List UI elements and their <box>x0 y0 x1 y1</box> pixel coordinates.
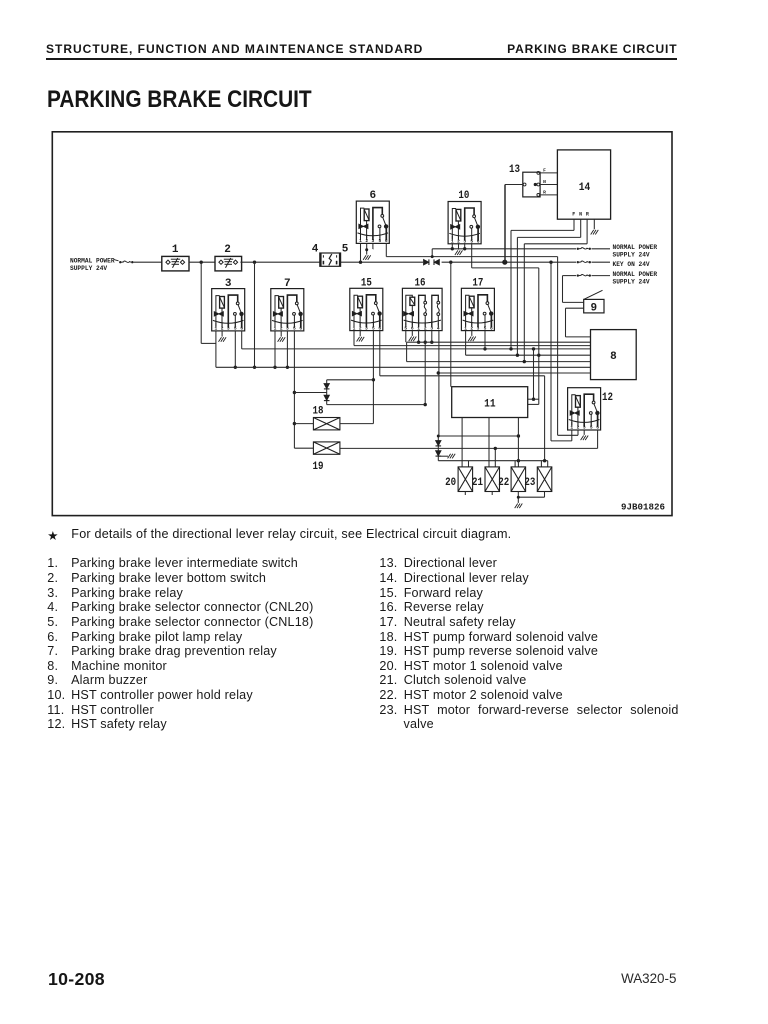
svg-text:9: 9 <box>590 302 597 314</box>
box 8 (machine monitor) <box>591 330 637 380</box>
wire to ground <box>438 455 448 457</box>
wire relay7 pin1 down <box>274 331 276 367</box>
wire diode junction up <box>431 249 433 257</box>
svg-text:15: 15 <box>361 278 372 290</box>
wire 13-N to 14 <box>540 184 558 186</box>
svg-text:R: R <box>586 212 589 218</box>
wire relay16 pin4 down <box>438 331 440 437</box>
junction <box>494 447 497 450</box>
svg-text:F: F <box>543 167 546 173</box>
svg-text:5: 5 <box>404 325 407 331</box>
wire relay10 pin2 <box>458 243 460 250</box>
ground relay 3 <box>219 337 227 342</box>
wire relay15 pin1 down <box>353 331 355 346</box>
switch S2 internals <box>219 258 238 268</box>
wire 14-F down <box>573 219 575 230</box>
svg-text:10: 10 <box>458 190 469 202</box>
wire relay6 pin2 <box>366 243 368 254</box>
junction in connector 13 <box>534 183 537 186</box>
junction <box>253 366 256 369</box>
junction <box>543 459 546 462</box>
svg-text:1: 1 <box>417 325 420 331</box>
junction <box>417 341 420 344</box>
junction <box>451 247 454 250</box>
diagram frame <box>52 132 672 516</box>
wire rail <box>189 261 215 263</box>
bus into box8 g <box>216 366 591 368</box>
wire <box>592 248 611 250</box>
svg-text:18: 18 <box>313 406 324 418</box>
junction F <box>509 347 512 350</box>
junction <box>537 354 540 357</box>
svg-text:NORMAL POWER: NORMAL POWER <box>613 271 658 278</box>
junction <box>365 248 368 251</box>
svg-text:R: R <box>543 189 546 195</box>
wire F vertical <box>510 230 512 349</box>
junction <box>449 261 452 264</box>
svg-text:6: 6 <box>378 325 381 331</box>
ground relay 12 <box>581 436 589 441</box>
diode D2 on rail <box>434 259 439 265</box>
svg-text:2: 2 <box>365 238 368 244</box>
wire 14-R down <box>586 219 588 244</box>
wire box11 to valve22 right pin <box>517 418 519 467</box>
relay 17 (neutral safety relay) <box>461 288 494 330</box>
svg-text:4: 4 <box>437 325 440 331</box>
wire valve18 left <box>294 423 313 425</box>
wire relay3 pin2 <box>221 331 223 337</box>
valve 23 (HST motor fwd-rev selector solenoid) <box>537 467 552 492</box>
bus into box8 e <box>466 354 591 356</box>
wire relay7 pin2 <box>280 331 282 337</box>
footer page number <box>48 969 105 990</box>
wire rail to box11 <box>450 262 452 387</box>
junction <box>517 459 520 462</box>
wire valve22 bottom <box>517 492 519 503</box>
svg-text:2: 2 <box>280 326 283 332</box>
wire 13 down to rail <box>504 185 506 263</box>
wire valve23 to valve22 <box>518 496 544 498</box>
header left <box>46 42 423 56</box>
junction <box>483 347 486 350</box>
wire buzzer bottom h <box>566 307 584 309</box>
box11 stub a <box>528 398 539 400</box>
junction heavy <box>502 260 507 265</box>
connector 4/5 internals <box>321 253 340 266</box>
header right <box>507 42 677 56</box>
valve 19 (HST pump reverse solenoid) <box>313 442 340 454</box>
svg-text:1: 1 <box>464 325 467 331</box>
svg-text:NORMAL POWER: NORMAL POWER <box>613 244 658 251</box>
junction <box>424 403 427 406</box>
svg-text:3: 3 <box>225 278 232 290</box>
legend list <box>47 557 387 570</box>
svg-text:13: 13 <box>509 164 520 176</box>
junction <box>532 347 535 350</box>
ground relay 6 <box>363 255 371 260</box>
wire relay6 pin3 stub <box>372 243 374 249</box>
supply switch right 1 <box>577 248 591 250</box>
svg-text:3: 3 <box>365 325 368 331</box>
valve 21 (clutch solenoid) <box>485 467 500 492</box>
svg-text:1: 1 <box>353 325 356 331</box>
svg-text:2: 2 <box>221 326 224 332</box>
wire <box>372 248 375 250</box>
wire R vertical <box>523 244 525 362</box>
wire down to box11 stub2 <box>538 268 540 405</box>
wire relay15 pin2 <box>359 331 361 337</box>
svg-text:3: 3 <box>227 326 230 332</box>
wire relay10 pin3 <box>464 243 466 249</box>
junction <box>200 261 203 264</box>
junction N <box>516 354 519 357</box>
valve22 left pin <box>514 461 516 467</box>
wire relay12 pin3 <box>583 430 585 435</box>
junction <box>549 261 552 264</box>
svg-text:6: 6 <box>411 325 414 331</box>
svg-text:5: 5 <box>372 325 375 331</box>
junction <box>424 341 427 344</box>
wire 14-R left <box>524 243 587 245</box>
wire relay3 pin5 down <box>234 331 236 367</box>
junction <box>293 391 296 394</box>
wire <box>472 267 539 269</box>
valve20 right pin <box>468 461 470 467</box>
svg-text:6: 6 <box>240 326 243 332</box>
key-on switch <box>577 261 591 263</box>
svg-text:1: 1 <box>172 244 179 256</box>
svg-text:7: 7 <box>284 278 291 290</box>
wire relay10 pin1 <box>451 243 453 249</box>
relay 7 (parking brake drag prevention relay) <box>271 289 304 331</box>
valve 18 (HST pump forward solenoid) <box>313 418 340 430</box>
wire relay6 pin6 right <box>386 256 557 258</box>
wire bus left end <box>406 342 408 361</box>
valve23 right pin <box>547 461 549 467</box>
diode D5 <box>436 441 442 446</box>
svg-text:12: 12 <box>602 392 613 404</box>
supply switch right 2 <box>577 274 591 276</box>
svg-text:3: 3 <box>430 325 433 331</box>
svg-text:5: 5 <box>234 326 237 332</box>
svg-text:2: 2 <box>424 325 427 331</box>
svg-text:3: 3 <box>372 238 375 244</box>
wire relay15 pin5 down <box>372 331 374 424</box>
stub valve20 bottom <box>464 492 466 496</box>
svg-text:6: 6 <box>385 238 388 244</box>
wire 14-F left <box>511 229 574 231</box>
junction R <box>523 360 526 363</box>
wire valve19 right long <box>340 447 598 449</box>
junction <box>463 247 466 250</box>
wire diode bottom <box>327 404 426 406</box>
svg-text:22: 22 <box>498 477 509 489</box>
bus into box8 c <box>354 345 591 347</box>
diode chain 2 vertical <box>437 436 439 461</box>
junction <box>234 366 237 369</box>
svg-text:20: 20 <box>445 477 456 489</box>
switch S2 (parking brake lever bottom switch) <box>215 256 242 271</box>
wire rail <box>240 261 320 263</box>
junction <box>517 434 520 437</box>
wire 14 ground <box>593 219 595 229</box>
svg-text:1: 1 <box>274 326 277 332</box>
wire relay10 pin5 <box>471 243 473 268</box>
page title <box>47 86 312 114</box>
wire <box>551 440 572 442</box>
footer model <box>621 971 676 986</box>
diode D6 <box>436 451 442 456</box>
svg-text:N: N <box>543 179 546 185</box>
box11 stub b <box>528 403 539 405</box>
wire N vertical <box>516 237 518 355</box>
wire rail key-on <box>341 261 576 263</box>
wire relay6 pin1 to rail <box>360 243 362 262</box>
svg-text:KEY ON 24V: KEY ON 24V <box>613 261 650 268</box>
svg-text:5: 5 <box>590 425 593 431</box>
wire valve23 bottom <box>544 492 546 498</box>
wire diode top <box>327 379 374 381</box>
wire 13 left <box>505 184 523 186</box>
box 11 (HST controller) <box>452 387 528 418</box>
wire valve18 right <box>340 423 374 425</box>
svg-text:2: 2 <box>359 325 362 331</box>
svg-text:5: 5 <box>379 238 382 244</box>
wire buzzer bottom down <box>565 308 567 337</box>
wire relay7 pin5 down to valve19 <box>293 331 295 448</box>
wire relay15 pin6 down <box>379 331 381 376</box>
valve 20 (HST motor 1 solenoid) <box>458 467 473 492</box>
svg-text:8: 8 <box>610 351 617 363</box>
svg-text:1: 1 <box>215 326 218 332</box>
wire valve19 left <box>294 447 313 449</box>
star note <box>47 528 58 543</box>
svg-text:9JB01826: 9JB01826 <box>621 502 665 512</box>
bus into box8 b <box>407 341 591 343</box>
wire box11 to valve20 left pin <box>461 418 463 467</box>
diode chain vertical <box>326 380 328 405</box>
wire relay16 pin5 down <box>405 331 407 343</box>
wire relay17 pin1 down <box>465 331 467 356</box>
wire relay3 pin1 down <box>215 331 217 367</box>
wire down to box11 stub <box>533 349 535 399</box>
diode D3 <box>324 384 330 389</box>
wire <box>592 261 611 263</box>
wire relay16 pin3 down <box>431 331 433 343</box>
wire 14-N left <box>517 236 580 238</box>
svg-text:17: 17 <box>472 278 483 290</box>
diode D1 on rail <box>424 259 429 265</box>
wire <box>558 434 578 436</box>
valve21 right pin <box>494 448 496 467</box>
svg-text:3: 3 <box>477 325 480 331</box>
svg-text:NORMAL POWER: NORMAL POWER <box>70 257 115 264</box>
wire relay6 pin6 <box>385 243 387 256</box>
junction <box>437 371 440 374</box>
junction <box>359 261 362 264</box>
junction <box>517 496 520 499</box>
wire buzzer top <box>562 276 564 303</box>
wire relay12 pin2 down <box>577 430 579 436</box>
wire box11 to valve21 left pin <box>488 418 490 467</box>
connector 13 (directional lever) <box>523 172 540 197</box>
relay 3 (parking brake relay) <box>212 289 245 331</box>
wire relay12 pin1 down <box>571 430 573 441</box>
svg-text:11: 11 <box>484 398 496 410</box>
svg-text:3: 3 <box>286 326 289 332</box>
wire rail to bus <box>254 262 256 367</box>
wire 13-F to 14 <box>540 172 558 174</box>
ground relay 16 <box>409 337 417 342</box>
valve23 left pin <box>540 461 542 467</box>
svg-text:SUPPLY 24V: SUPPLY 24V <box>70 265 107 272</box>
connector 13 pins <box>523 172 540 197</box>
svg-text:4: 4 <box>312 244 319 256</box>
box 14 (directional lever relay) <box>557 150 610 219</box>
ground box 14 <box>591 230 599 235</box>
bus into box8 d <box>242 348 591 350</box>
junction <box>293 422 296 425</box>
svg-text:19: 19 <box>313 461 324 473</box>
svg-text:SUPPLY 24V: SUPPLY 24V <box>613 252 650 259</box>
ground relay 15 <box>357 337 365 342</box>
junction <box>532 398 535 401</box>
svg-text:5: 5 <box>484 325 487 331</box>
junction <box>372 378 375 381</box>
wire relay17 pin5 down <box>484 331 486 349</box>
wire relay16 pin6 <box>411 331 413 336</box>
ground relay 10 <box>455 250 463 255</box>
ground valve 22 <box>515 504 523 509</box>
ground relay 7 <box>278 337 286 342</box>
svg-text:6: 6 <box>490 325 493 331</box>
wire <box>592 275 611 277</box>
svg-text:6: 6 <box>477 239 480 245</box>
switch S1 (parking brake lever intermediate switch) <box>162 256 189 271</box>
junction <box>286 366 289 369</box>
svg-text:5: 5 <box>293 326 296 332</box>
bus into box8 a <box>566 336 591 338</box>
bus into box8 h <box>438 372 590 374</box>
bus into box8 f <box>407 361 591 363</box>
svg-text:5: 5 <box>342 244 349 256</box>
wire rail <box>134 261 162 263</box>
wire relay12 pin6 down <box>597 430 599 449</box>
wire relay16 pin2 down <box>424 331 426 405</box>
stub valve21 bottom <box>491 492 493 496</box>
wire buzzer top h <box>563 301 584 303</box>
wire to valve23 feeder <box>380 375 545 377</box>
supply switch left <box>119 261 133 263</box>
relay 16 (reverse relay) <box>402 288 442 330</box>
ground relay 17 <box>468 337 476 342</box>
wire 13-R to 14 <box>540 194 558 196</box>
wire down to valve23 bus <box>544 376 546 461</box>
svg-text:6: 6 <box>299 326 302 332</box>
svg-text:2: 2 <box>224 244 231 256</box>
junction <box>437 435 440 438</box>
wire relay3 pin6 down <box>241 331 243 349</box>
svg-text:23: 23 <box>524 477 535 489</box>
bus valves <box>438 460 547 462</box>
junction <box>430 341 433 344</box>
svg-text:16: 16 <box>415 278 426 290</box>
diode D4 <box>324 395 330 400</box>
valve 22 (HST motor 2 solenoid) <box>511 467 525 492</box>
svg-text:21: 21 <box>472 477 483 489</box>
relay 12 (HST safety relay) <box>568 388 601 430</box>
connector CNL20/CNL18 (4,5) <box>320 253 341 266</box>
header rule <box>46 58 677 60</box>
svg-text:2: 2 <box>470 325 473 331</box>
wire normal power 1 <box>432 248 576 250</box>
wire relay6 pin6 to relay12 pin2 <box>557 257 559 436</box>
junction <box>431 255 434 258</box>
wire <box>201 342 216 344</box>
svg-text:N: N <box>579 212 582 218</box>
switch S1 internals <box>166 258 185 268</box>
wire relay16 pin1 down <box>418 331 420 343</box>
relay 10 (HST controller power hold relay) <box>448 202 481 244</box>
wire h436 <box>438 435 518 437</box>
wire from rail down <box>200 262 202 343</box>
wire rail to relay12 pin1 <box>550 262 552 441</box>
relay 6 (parking brake pilot lamp relay) <box>356 201 389 243</box>
svg-text:14: 14 <box>579 182 591 194</box>
buzzer 9 (alarm buzzer) <box>584 299 604 313</box>
ground diode chain <box>448 454 456 459</box>
wire relay17 pin2 <box>471 331 473 336</box>
svg-text:6: 6 <box>369 190 376 202</box>
wire diode mid <box>294 392 326 394</box>
wire 14-N down <box>580 219 582 237</box>
wire relay7 pin3 down <box>286 331 288 367</box>
wire normal power 2 <box>563 275 577 277</box>
junction <box>273 366 276 369</box>
svg-text:F: F <box>572 212 575 218</box>
svg-text:SUPPLY 24V: SUPPLY 24V <box>613 278 650 285</box>
buzzer arm <box>584 290 603 299</box>
junction <box>253 261 256 264</box>
svg-text:1: 1 <box>359 238 362 244</box>
relay 15 (forward relay) <box>350 288 383 330</box>
